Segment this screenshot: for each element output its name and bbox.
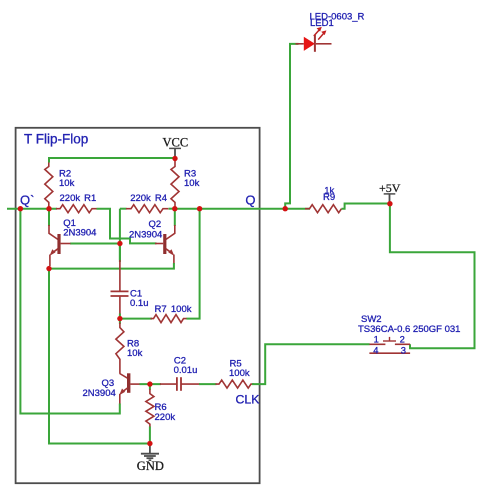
svg-text:220k: 220k: [155, 412, 176, 423]
wire Q3 base to C2: [140, 384, 162, 390]
label R6 220k: [155, 402, 176, 423]
wire R9 to +5V: [342, 204, 390, 209]
svg-text:10k: 10k: [184, 178, 200, 189]
label R5 100k: [229, 358, 250, 379]
svg-text:0.1u: 0.1u: [130, 298, 149, 309]
wire Q1 base lead green: [70, 243, 120, 245]
label R2 10k: [59, 168, 75, 189]
resistor R8: [116, 323, 124, 374]
resistor R1: [56, 205, 97, 213]
wire R1 right to Q2 base: [97, 209, 157, 244]
node R7 branch dot: [197, 206, 202, 211]
label R8 10k: [127, 338, 143, 359]
label Q: [245, 192, 255, 207]
node Q1 base junction dot: [117, 241, 122, 246]
wire emitter to GND vertical: [49, 269, 150, 444]
label 220k R4: [130, 193, 167, 204]
wire +5V to switch pin2: [390, 204, 475, 349]
node Q1 collector dot: [46, 206, 51, 211]
wire R7 right vertical from Q rail: [187, 209, 200, 319]
wire R6 bottom to GND: [149, 427, 151, 444]
pin 4: [373, 345, 378, 356]
svg-text:0.01u: 0.01u: [174, 365, 198, 376]
svg-text:R9: R9: [323, 192, 335, 203]
pin 1: [374, 334, 379, 345]
label R3 10k: [184, 168, 200, 189]
node +5V junction dot: [387, 201, 392, 206]
svg-text:CLK: CLK: [236, 392, 261, 406]
resistor R4: [126, 205, 168, 213]
label 1k R9: [323, 185, 335, 203]
svg-text:VCC: VCC: [163, 135, 189, 149]
label SW2: [361, 314, 382, 325]
node LED branch dot: [283, 206, 288, 211]
VCC symbol: [163, 135, 189, 158]
wire C1 top vertical: [119, 244, 121, 263]
node emitter junction dot: [46, 266, 51, 271]
svg-text:2N3904: 2N3904: [129, 229, 162, 240]
label 220k R1: [60, 193, 97, 204]
resistor R5: [216, 380, 255, 388]
svg-text:100k: 100k: [229, 368, 250, 379]
ground GND symbol: [137, 444, 164, 473]
pin 3: [401, 345, 406, 356]
svg-text:+5V: +5V: [379, 181, 401, 195]
node Q2 collector dot: [172, 206, 177, 211]
svg-text:4: 4: [373, 345, 378, 356]
resistor R2: [45, 163, 53, 209]
wire C1 bottom to node: [119, 314, 121, 325]
wire Q` rail: [7, 208, 57, 210]
svg-text:10k: 10k: [59, 178, 75, 189]
wire VCC rail: [49, 158, 175, 163]
title label "T Flip-Flop": [24, 132, 88, 147]
svg-text:Q2: Q2: [149, 219, 162, 230]
svg-text:1: 1: [374, 334, 379, 345]
svg-text:2N3904: 2N3904: [83, 388, 116, 399]
wire R4 right to Q rail dot: [169, 208, 175, 210]
transistor Q3: [119, 373, 140, 404]
label Q1 2N3904: [63, 218, 96, 239]
switch SW2: [369, 337, 410, 353]
resistor R9: [305, 205, 341, 213]
label LED-0603_R: [310, 11, 365, 22]
transistor Q1: [49, 209, 71, 266]
label Q3 2N3904: [83, 378, 116, 399]
wire emitter rail: [49, 263, 174, 269]
wire R7 left: [120, 318, 152, 320]
node C1/R7/R8 junction dot: [117, 316, 122, 321]
LED LED1: [296, 27, 332, 52]
label R7 100k: [155, 304, 192, 315]
power +5V symbol: [379, 181, 401, 203]
resistor R3: [171, 161, 179, 209]
svg-text:3: 3: [401, 345, 406, 356]
label CLK: [236, 392, 261, 406]
wire LED vertical: [285, 44, 298, 209]
svg-text:T Flip-Flop: T Flip-Flop: [24, 132, 88, 147]
svg-text:10k: 10k: [127, 348, 143, 359]
box T Flip-Flop frame: [16, 128, 260, 483]
svg-text:220k R1: 220k R1: [60, 193, 97, 204]
wire R4 top elbow: [120, 208, 127, 210]
transistor Q2: [155, 209, 175, 264]
svg-text:Q`: Q`: [20, 192, 34, 207]
svg-text:GND: GND: [137, 459, 164, 473]
node VCC junction dot: [172, 156, 177, 161]
svg-text:LED1: LED1: [310, 18, 334, 29]
resistor R7: [151, 315, 188, 323]
wire R4 vertical to Q1 base node: [119, 209, 121, 260]
node Q3 base junction dot: [147, 381, 152, 386]
svg-text:2N3904: 2N3904: [63, 228, 96, 239]
wire Q rail inside box to R9: [175, 208, 310, 210]
node GND junction dot: [147, 441, 152, 446]
capacitor C2: [160, 377, 200, 391]
svg-text:2: 2: [400, 334, 405, 345]
resistor R6: [146, 389, 154, 427]
wire Q` feedback to Q3 emitter: [20, 209, 119, 414]
label C1 0.1u: [130, 289, 149, 310]
svg-text:R7 100k: R7 100k: [155, 304, 192, 315]
label C2 0.01u: [174, 355, 198, 376]
svg-text:220k R4: 220k R4: [130, 193, 167, 204]
node Q` rail dot at feedback: [18, 206, 23, 211]
capacitor C1: [111, 260, 129, 315]
wire C2 to R5: [199, 383, 217, 385]
wire CLK to switch: [252, 344, 370, 384]
svg-text:Q: Q: [245, 192, 255, 207]
label Q2 2N3904: [129, 219, 162, 240]
label LED1: [310, 18, 334, 29]
pin 2: [400, 334, 405, 345]
label Q`: [20, 192, 34, 207]
label TS36CA-0.6 250GF 031: [358, 324, 460, 335]
